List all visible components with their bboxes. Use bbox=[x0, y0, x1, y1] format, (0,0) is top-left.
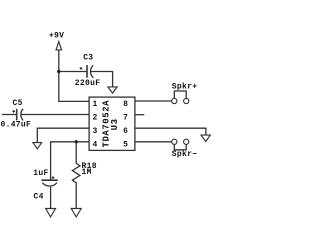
svg-text:0.47uF: 0.47uF bbox=[1, 121, 32, 130]
svg-text:Spkr−: Spkr− bbox=[172, 150, 198, 159]
svg-text:C4: C4 bbox=[34, 193, 44, 202]
svg-text:1: 1 bbox=[92, 100, 97, 109]
svg-text:U3: U3 bbox=[110, 118, 120, 130]
svg-text:5: 5 bbox=[123, 141, 128, 150]
svg-text:+9V: +9V bbox=[49, 32, 64, 41]
svg-text:3: 3 bbox=[92, 127, 97, 136]
svg-text:220uF: 220uF bbox=[75, 79, 101, 88]
svg-text:C5: C5 bbox=[13, 99, 23, 108]
svg-text:Spkr+: Spkr+ bbox=[172, 82, 198, 91]
svg-text:4: 4 bbox=[92, 141, 97, 150]
svg-text:8: 8 bbox=[123, 100, 128, 109]
svg-text:1uF: 1uF bbox=[33, 169, 48, 178]
svg-text:C3: C3 bbox=[83, 54, 93, 63]
svg-text:1M: 1M bbox=[82, 168, 92, 177]
svg-text:2: 2 bbox=[92, 114, 97, 123]
svg-text:7: 7 bbox=[123, 114, 128, 123]
svg-text:6: 6 bbox=[123, 127, 128, 136]
